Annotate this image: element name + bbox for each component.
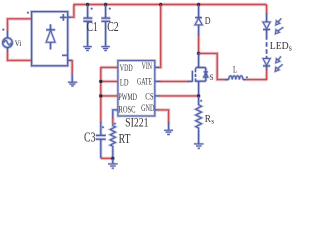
svg-text:s: s [289,44,292,53]
wire top rail [73,4,266,6]
LED 2 light arrows [278,56,281,60]
wire inductor to LED bottom [246,79,267,81]
AC source Vi [3,38,13,48]
svg-text:s: s [211,116,214,125]
svg-text:VDD: VDD [120,64,133,74]
svg-text:GATE: GATE [137,78,152,88]
node RT bottom [111,157,114,160]
node C2 top [104,3,107,6]
LED 2 [266,56,268,59]
IC SI221 box [118,61,155,117]
ground C3 RT [112,158,114,163]
bridge rectifier [32,12,68,66]
svg-text:SI221: SI221 [125,115,149,129]
dashed LED string [266,36,268,40]
node dot above source [3,29,5,31]
ground bridge [71,74,73,82]
svg-text:RT: RT [119,131,131,146]
svg-text:C3: C3 [84,130,96,145]
node diode D top [197,3,200,6]
node dot at bridge top-left [27,12,29,14]
capacitor C2 [105,5,107,19]
inductor L [225,79,229,81]
svg-text:LED: LED [270,40,289,52]
node CS junction [197,94,200,97]
label - bridge negative [62,54,68,56]
node PWMD junction [99,94,102,97]
wire ROSC [113,110,118,118]
polarity dot C3 top [102,126,104,128]
wire source top to bridge [8,19,32,31]
wire PWMD [101,95,118,97]
node C1 top [86,3,89,6]
capacitor C1 [87,5,89,19]
svg-text:Vi: Vi [15,38,22,48]
resistor RT [110,124,115,150]
svg-text:L: L [233,66,237,76]
wire bridge plus to top rail [68,16,72,18]
polarity dot inductor [246,77,248,79]
wire source bottom to bridge [8,51,32,60]
label + bridge positive [60,16,67,18]
polarity dot RT top [114,123,116,125]
polarity dot Rs top [200,100,202,102]
diode D [198,5,200,18]
wire top rail to LED string [266,5,268,15]
wire GATE to MOSFET [155,80,161,82]
wire C3 to RT ground [101,157,113,159]
polarity dot C2 [109,8,111,10]
wire diode anode down [198,35,200,54]
node VIN drop [159,3,162,6]
svg-text:ROSC: ROSC [119,105,136,115]
LED 1 [266,14,268,22]
ground Rs [194,143,204,145]
wire switch node to inductor [199,53,226,79]
svg-text:D: D [205,15,211,27]
svg-text:R: R [205,114,211,125]
ground GND pin [168,123,170,130]
svg-text:C1: C1 [87,19,98,34]
LED 1 light arrows [278,18,281,22]
svg-text:GND: GND [141,104,154,114]
wire VDD LD PWMD bus [100,67,102,123]
node LD junction [99,80,102,83]
polarity dot C1 [91,8,93,10]
svg-text:S: S [209,72,213,82]
ground C1 [83,46,92,48]
wire VDD [101,66,118,68]
ground C2 [101,46,110,48]
capacitor C3 [100,122,102,135]
svg-text:CS: CS [145,92,153,102]
wire CS [155,95,160,97]
wire LD [101,80,118,82]
node switch [197,52,200,55]
resistor Rs [198,96,200,104]
wire GND pin to ground [155,109,159,111]
svg-text:PWMD: PWMD [118,93,137,103]
wire LED 2 cathode down [266,69,268,79]
wire VIN [158,5,160,68]
svg-text:C2: C2 [107,19,119,34]
svg-text:VIN: VIN [142,62,153,72]
svg-text:LD: LD [120,78,129,88]
transistor S MOSFET [198,53,200,67]
wire bridge minus output [68,59,73,61]
